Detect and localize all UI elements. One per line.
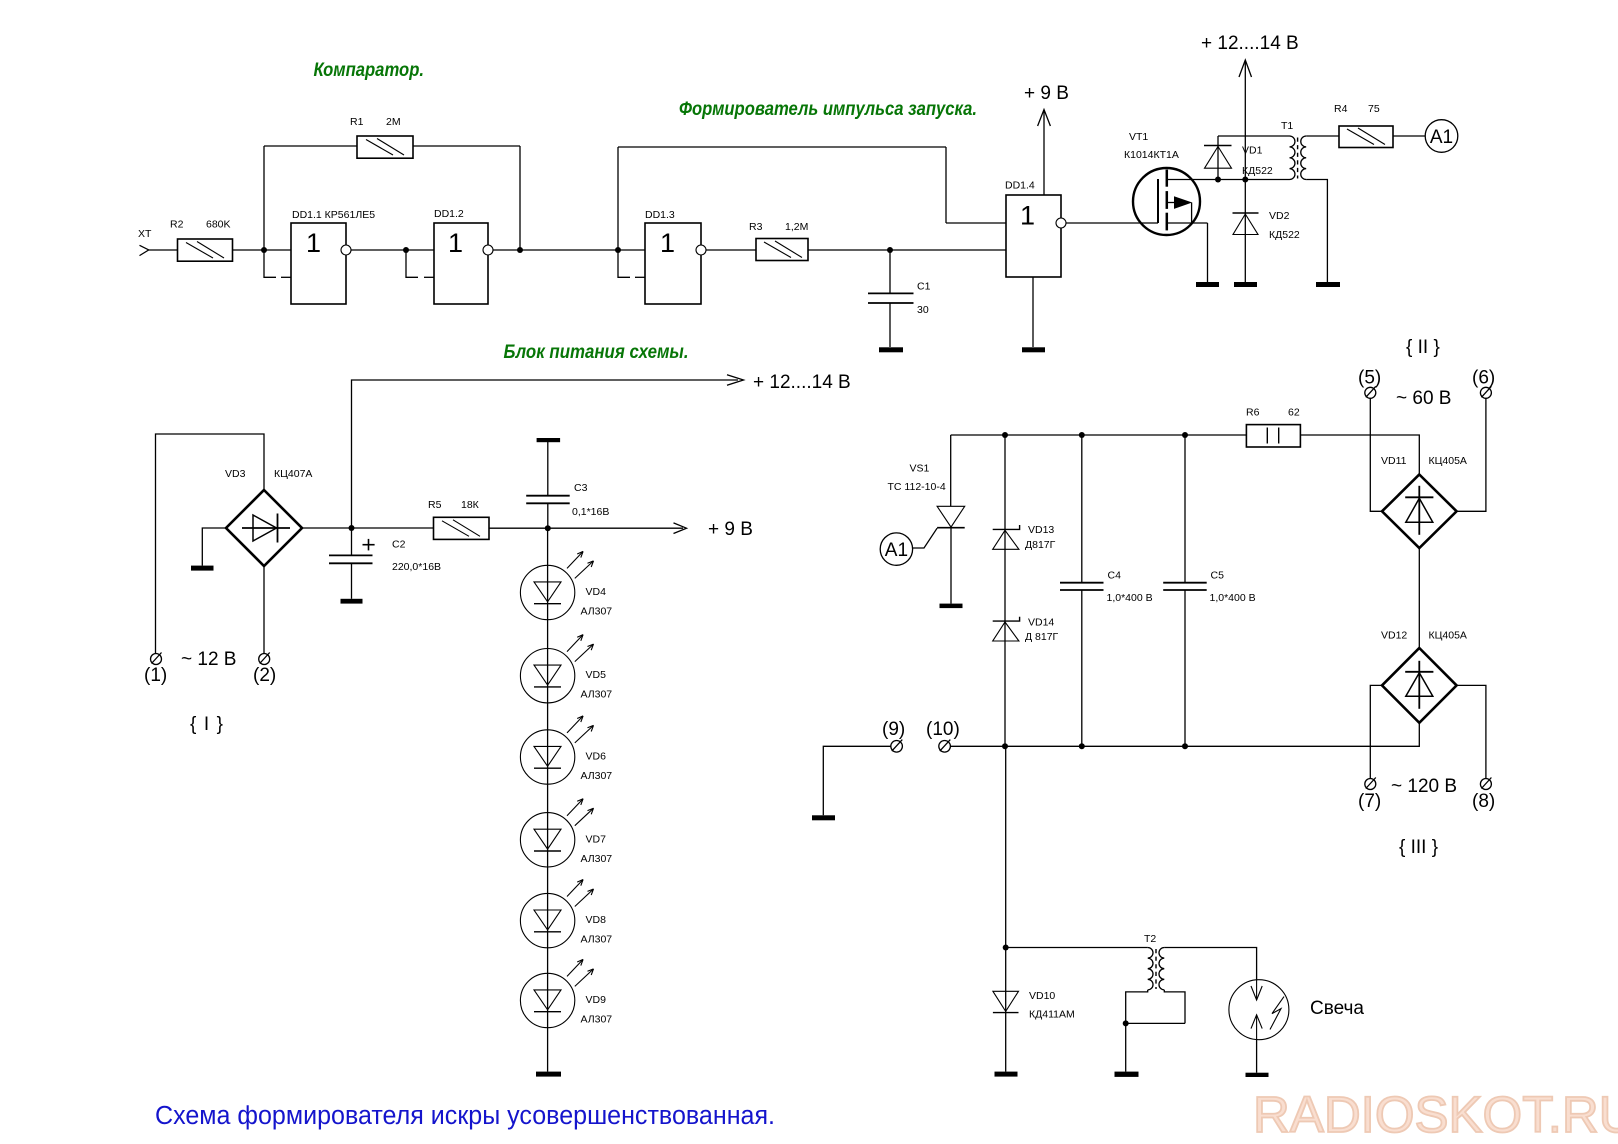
wire R1 feedback right vertical — [519, 146, 521, 250]
svg-text:А1: А1 — [885, 540, 908, 561]
svg-text:{ III }: { III } — [1399, 837, 1438, 858]
svg-text:(1): (1) — [144, 665, 167, 686]
svg-text:Компаратор.: Компаратор. — [314, 60, 425, 81]
node junction — [1002, 432, 1008, 438]
wire bottom rail — [950, 723, 1419, 747]
ground under spark plug — [1246, 1073, 1269, 1077]
svg-text:(7): (7) — [1358, 791, 1381, 812]
thyristor VS1 ТС 112-10-4 — [913, 435, 965, 604]
gate DD1.4 — [1006, 195, 1061, 277]
svg-text:R5: R5 — [428, 499, 442, 511]
svg-text:Д817Г: Д817Г — [1025, 539, 1056, 551]
svg-text:А1: А1 — [1430, 127, 1453, 148]
svg-text:VS1: VS1 — [910, 463, 930, 475]
wire terminal 9 to ground — [823, 746, 891, 815]
svg-text:220,0*16В: 220,0*16В — [392, 561, 441, 573]
svg-text:(8): (8) — [1472, 791, 1495, 812]
svg-text:(9): (9) — [882, 719, 905, 740]
svg-text:Свеча: Свеча — [1310, 998, 1364, 1019]
capacitor C5 — [1163, 435, 1207, 746]
svg-text:DD1.4: DD1.4 — [1005, 180, 1035, 192]
svg-text:VD13: VD13 — [1028, 524, 1054, 536]
svg-text:АЛ307: АЛ307 — [581, 689, 613, 701]
wire bridge left lead — [202, 528, 226, 566]
svg-text:2M: 2M — [386, 116, 401, 128]
resistor R2 — [178, 239, 233, 261]
svg-text:1,0*400 В: 1,0*400 В — [1210, 592, 1256, 604]
svg-text:DD1.1 КР561ЛЕ5: DD1.1 КР561ЛЕ5 — [292, 209, 375, 221]
svg-text:1,0*400 В: 1,0*400 В — [1107, 592, 1153, 604]
wire DD1.3 second input — [618, 250, 645, 277]
wire feedback DD1.3 to DD1.4 vertical — [617, 147, 619, 250]
gate DD1.2 — [434, 223, 488, 304]
LED VD4 АЛ307 — [520, 551, 593, 619]
wire — [706, 249, 756, 251]
diode VD2 КД522 — [1233, 180, 1259, 283]
ground under DD1.4 — [1022, 347, 1045, 352]
svg-text:1: 1 — [448, 228, 463, 258]
terminal (2) — [259, 653, 270, 665]
ground under VD10 — [995, 1072, 1018, 1077]
wire VD11 bottom to VD12 top — [1418, 548, 1420, 648]
ground under C1 — [879, 347, 903, 352]
wire secondary top — [1306, 135, 1339, 137]
svg-text:+ 12....14 В: + 12....14 В — [1201, 33, 1299, 54]
gate DD1.1 — [291, 223, 346, 304]
svg-text:+ 9 В: + 9 В — [1024, 83, 1069, 104]
power +9V arrow above DD1.4 — [1038, 110, 1051, 196]
svg-text:(10): (10) — [926, 719, 960, 740]
svg-text:VD6: VD6 — [586, 751, 607, 763]
svg-text:1: 1 — [1020, 201, 1035, 231]
svg-text:VD3: VD3 — [225, 468, 246, 480]
svg-text:R3: R3 — [749, 221, 763, 233]
resistor R6 — [1246, 425, 1300, 447]
diode VD1 КД522 — [1204, 136, 1232, 180]
terminal (10) — [939, 740, 951, 753]
svg-text:~ 12 В: ~ 12 В — [181, 649, 236, 670]
zener diode VD13 Д817Г — [993, 525, 1020, 549]
wire — [351, 249, 434, 251]
svg-text:(2): (2) — [253, 665, 276, 686]
wire DD1.1 second input — [264, 250, 291, 277]
svg-text:{ II }: { II } — [1406, 337, 1440, 358]
svg-text:АЛ307: АЛ307 — [581, 770, 613, 782]
node junction — [261, 247, 267, 253]
spark plug Свеча — [1229, 980, 1289, 1040]
svg-text:КД411АМ: КД411АМ — [1029, 1009, 1075, 1021]
ground under VT1 source — [1196, 282, 1219, 287]
wire +9V output — [489, 523, 687, 534]
pin DD1.3 inversion circle — [696, 245, 706, 255]
svg-text:RADIOSKOT.RU: RADIOSKOT.RU — [1253, 1086, 1618, 1143]
power +12...14V arrow above T1 — [1239, 60, 1252, 180]
svg-text:КЦ405А: КЦ405А — [1429, 630, 1467, 642]
LED VD8 АЛ307 — [520, 880, 593, 948]
svg-text:VD14: VD14 — [1028, 617, 1054, 629]
svg-text:+ 12....14 В: + 12....14 В — [753, 372, 851, 393]
svg-text:R2: R2 — [170, 219, 184, 231]
wire R1 feedback left vertical — [263, 146, 265, 250]
wire drain to primary bottom — [1218, 179, 1290, 181]
svg-text:VD9: VD9 — [586, 994, 607, 1006]
capacitor C4 — [1060, 435, 1104, 746]
wire DD1.4 ground lead — [1032, 277, 1034, 347]
terminal (7) — [1365, 778, 1376, 790]
wire — [149, 249, 178, 251]
wire secondary bottom — [1306, 180, 1327, 283]
node junction — [887, 247, 893, 253]
svg-text:R1: R1 — [350, 116, 364, 128]
terminal (6) — [1480, 386, 1491, 398]
wire bridge output — [302, 527, 434, 529]
node junction — [545, 525, 551, 531]
wire VD10 branch — [1005, 746, 1007, 1071]
svg-text:VD12: VD12 — [1381, 630, 1407, 642]
wire T2 primary top — [1006, 947, 1148, 949]
node junction — [1003, 945, 1009, 951]
wire T2 secondary to spark plug — [1164, 948, 1256, 980]
svg-text:АЛ307: АЛ307 — [581, 934, 613, 946]
svg-text:680K: 680K — [206, 219, 231, 231]
svg-text:R6: R6 — [1246, 407, 1260, 419]
resistor R5 — [434, 517, 490, 539]
wire VD12 left to terminal 7 — [1370, 685, 1382, 778]
svg-text:VD1: VD1 — [1242, 145, 1263, 157]
svg-text:C4: C4 — [1108, 570, 1122, 582]
svg-text:DD1.2: DD1.2 — [434, 208, 464, 220]
svg-text:C1: C1 — [917, 281, 931, 293]
transistor VT1 К1014КТ1А MOSFET — [1133, 168, 1218, 282]
node junction — [517, 247, 523, 253]
wire spark plug ground lead — [1256, 1040, 1258, 1073]
wire — [1393, 135, 1425, 137]
terminal (9) — [891, 740, 903, 753]
terminal (1) — [151, 653, 162, 665]
svg-text:1,2M: 1,2M — [785, 221, 808, 233]
ground under VS1 — [940, 604, 963, 609]
svg-text:АЛ307: АЛ307 — [581, 606, 613, 618]
svg-text:VD8: VD8 — [586, 914, 607, 926]
svg-text:XT: XT — [138, 228, 152, 240]
ground at terminal 9 — [812, 815, 835, 820]
node junction — [1079, 432, 1085, 438]
svg-text:1: 1 — [306, 228, 321, 258]
svg-text:КД522: КД522 — [1242, 165, 1273, 177]
LED VD5 АЛ307 — [520, 635, 593, 703]
svg-text:VD11: VD11 — [1381, 455, 1407, 467]
wire T2 primary bottom loop — [1126, 990, 1148, 1024]
svg-text:62: 62 — [1288, 407, 1300, 419]
diode VD10 КД411АМ — [993, 991, 1019, 1012]
resistor R3 — [756, 239, 808, 261]
svg-text:Блок питания схемы.: Блок питания схемы. — [504, 342, 689, 363]
wire terminal 6 to VD11 right — [1457, 398, 1486, 511]
pin DD1.1 inversion circle — [341, 245, 351, 255]
svg-text:Д 817Г: Д 817Г — [1025, 631, 1059, 643]
svg-text:VD4: VD4 — [586, 586, 607, 598]
svg-text:75: 75 — [1368, 103, 1380, 115]
svg-text:T2: T2 — [1144, 933, 1156, 945]
wire terminal 5 to VD11 left — [1370, 398, 1382, 511]
wire T2 bottom connecting — [1126, 1022, 1185, 1024]
svg-text:АЛ307: АЛ307 — [581, 853, 613, 865]
svg-text:~ 120 В: ~ 120 В — [1391, 776, 1457, 797]
svg-text:18К: 18К — [461, 499, 480, 511]
wire +12V rail from bridge — [352, 375, 744, 528]
svg-text:C2: C2 — [392, 539, 406, 551]
transformer T1 — [1290, 136, 1307, 180]
svg-text:Формирователь импульса запуска: Формирователь импульса запуска. — [679, 99, 977, 120]
ground under T1 secondary — [1316, 282, 1340, 287]
node junction — [1123, 1020, 1129, 1026]
ground under C2 — [341, 599, 363, 604]
wire T2 ground lead — [1125, 1023, 1127, 1071]
LED VD6 АЛ307 — [520, 716, 593, 784]
wire zener branch — [1004, 435, 1006, 746]
capacitor C3 — [526, 442, 570, 528]
svg-text:0,1*16В: 0,1*16В — [572, 506, 609, 518]
zener diode VD14 Д817Г — [993, 617, 1020, 641]
node junction — [1242, 177, 1248, 183]
svg-text:(5): (5) — [1358, 368, 1381, 389]
wire — [264, 145, 357, 147]
svg-text:КД522: КД522 — [1269, 229, 1300, 241]
svg-text:Схема формирователя искры усов: Схема формирователя искры усовершенствов… — [155, 1102, 775, 1130]
wire bridge top lead — [156, 434, 265, 654]
wire R6 to VD11 — [1300, 435, 1419, 475]
node junction — [349, 525, 355, 531]
svg-text:R4: R4 — [1334, 103, 1348, 115]
svg-text:~ 60 В: ~ 60 В — [1396, 388, 1451, 409]
wire VD12 right to terminal 8 — [1457, 685, 1486, 778]
capacitor C1 — [868, 250, 914, 347]
svg-text:DD1.3: DD1.3 — [645, 209, 675, 221]
node junction — [1182, 743, 1188, 749]
node junction — [1215, 177, 1221, 183]
resistor R1 — [357, 136, 413, 158]
wire gate of VT1 — [1066, 222, 1158, 224]
node junction — [1079, 743, 1085, 749]
pin DD1.4 inversion circle — [1056, 218, 1066, 228]
terminal (5) — [1365, 386, 1376, 398]
svg-text:C5: C5 — [1211, 570, 1225, 582]
svg-text:К1014КТ1А: К1014КТ1А — [1124, 149, 1179, 161]
node A1 circle gate — [880, 533, 912, 565]
svg-text:30: 30 — [917, 304, 929, 316]
wire T2 secondary bottom loop — [1164, 990, 1185, 1024]
svg-text:VD10: VD10 — [1029, 990, 1055, 1002]
ground under LED chain — [536, 1072, 561, 1077]
svg-text:КЦ407А: КЦ407А — [274, 468, 312, 480]
transformer T2 — [1148, 948, 1165, 990]
pin DD1.2 inversion circle — [483, 245, 493, 255]
svg-text:{ I }: { I } — [190, 714, 224, 735]
svg-text:VT1: VT1 — [1129, 131, 1148, 143]
wire — [233, 249, 292, 251]
LED VD7 АЛ307 — [520, 799, 593, 867]
svg-text:VD5: VD5 — [586, 669, 607, 681]
wire — [493, 249, 645, 251]
wire — [945, 147, 947, 223]
gate DD1.3 — [645, 223, 701, 304]
svg-text:VD7: VD7 — [586, 833, 607, 845]
wire bridge bottom lead — [263, 566, 265, 654]
svg-text:VD2: VD2 — [1269, 210, 1290, 222]
wire HV top rail — [951, 434, 1247, 436]
wire primary top — [1218, 135, 1290, 137]
node junction — [1002, 743, 1008, 749]
svg-text:(6): (6) — [1472, 368, 1495, 389]
wire feedback top horizontal — [618, 146, 946, 148]
ground at VD3 — [191, 566, 214, 571]
svg-text:КЦ405А: КЦ405А — [1429, 455, 1467, 467]
wire DD1.4 upper input — [946, 222, 1006, 224]
wire DD1.2 second input — [406, 250, 434, 277]
svg-text:1: 1 — [660, 228, 675, 258]
svg-text:T1: T1 — [1281, 120, 1293, 132]
wire — [413, 145, 520, 147]
bridge rectifier VD11 КЦ405А — [1382, 475, 1457, 549]
bridge rectifier VD3 КЦ407А — [226, 490, 302, 566]
wire LED chain vertical — [547, 528, 549, 1071]
capacitor C2 electrolytic — [329, 528, 375, 599]
resistor R4 — [1339, 126, 1393, 148]
terminal (8) — [1480, 778, 1491, 790]
node A1 circle — [1425, 120, 1458, 153]
power bar above C3 — [537, 438, 561, 442]
node junction — [403, 247, 409, 253]
svg-text:ТС 112-10-4: ТС 112-10-4 — [888, 481, 946, 493]
LED VD9 АЛ307 — [520, 959, 593, 1027]
ground under T2 — [1115, 1072, 1139, 1077]
svg-text:C3: C3 — [574, 482, 588, 494]
svg-text:АЛ307: АЛ307 — [581, 1014, 613, 1026]
node junction — [1182, 432, 1188, 438]
connector XT input arrow — [140, 245, 149, 255]
svg-text:+ 9 В: + 9 В — [708, 519, 753, 540]
wire — [808, 249, 1006, 251]
node junction — [615, 247, 621, 253]
ground under VD2 — [1234, 282, 1257, 287]
bridge rectifier VD12 КЦ405А — [1382, 648, 1457, 723]
